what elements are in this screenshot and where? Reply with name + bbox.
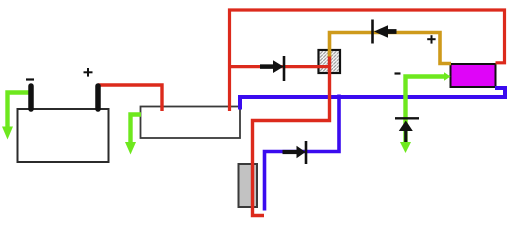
wire red battery plus to middle box — [98, 85, 162, 111]
diode D4 on green wire — [395, 118, 419, 142]
ground arrow at battery minus — [2, 127, 13, 140]
wire green battery minus arrow — [8, 93, 30, 128]
wire orange hatched-box to magenta-box — [330, 33, 452, 64]
label minus at magenta box — [395, 72, 401, 74]
green arrowhead into magenta box — [444, 72, 451, 80]
wire red branch through diode D1 to hatched box — [230, 65, 330, 68]
ground arrow below diode D4 — [400, 142, 411, 153]
battery terminal minus — [28, 86, 34, 109]
middle box U1 — [141, 107, 241, 139]
battery BT1 — [18, 109, 109, 162]
wire red top loop — [230, 10, 505, 111]
label minus at battery — [26, 78, 34, 80]
gray box U4 — [239, 164, 258, 207]
wire blue branch through diode D3 to gray box — [265, 95, 340, 211]
diode D1 on red branch — [260, 56, 284, 81]
diode D3 on blue branch — [283, 141, 307, 164]
label plus at battery — [84, 68, 93, 77]
wire blue magenta-box to bus to middle-box — [240, 88, 505, 110]
wire green magenta box to diode D4 arrow — [406, 77, 445, 144]
hatched box U2 — [319, 50, 341, 73]
ground arrow at middle box — [125, 142, 136, 155]
magenta box U3 — [451, 64, 496, 87]
battery terminal plus — [95, 86, 101, 109]
wire red hatched box down to gray box — [253, 57, 330, 216]
wire green middle box arrow — [131, 115, 142, 143]
label plus at orange wire — [427, 35, 435, 43]
diode D2 on orange wire — [373, 20, 397, 44]
